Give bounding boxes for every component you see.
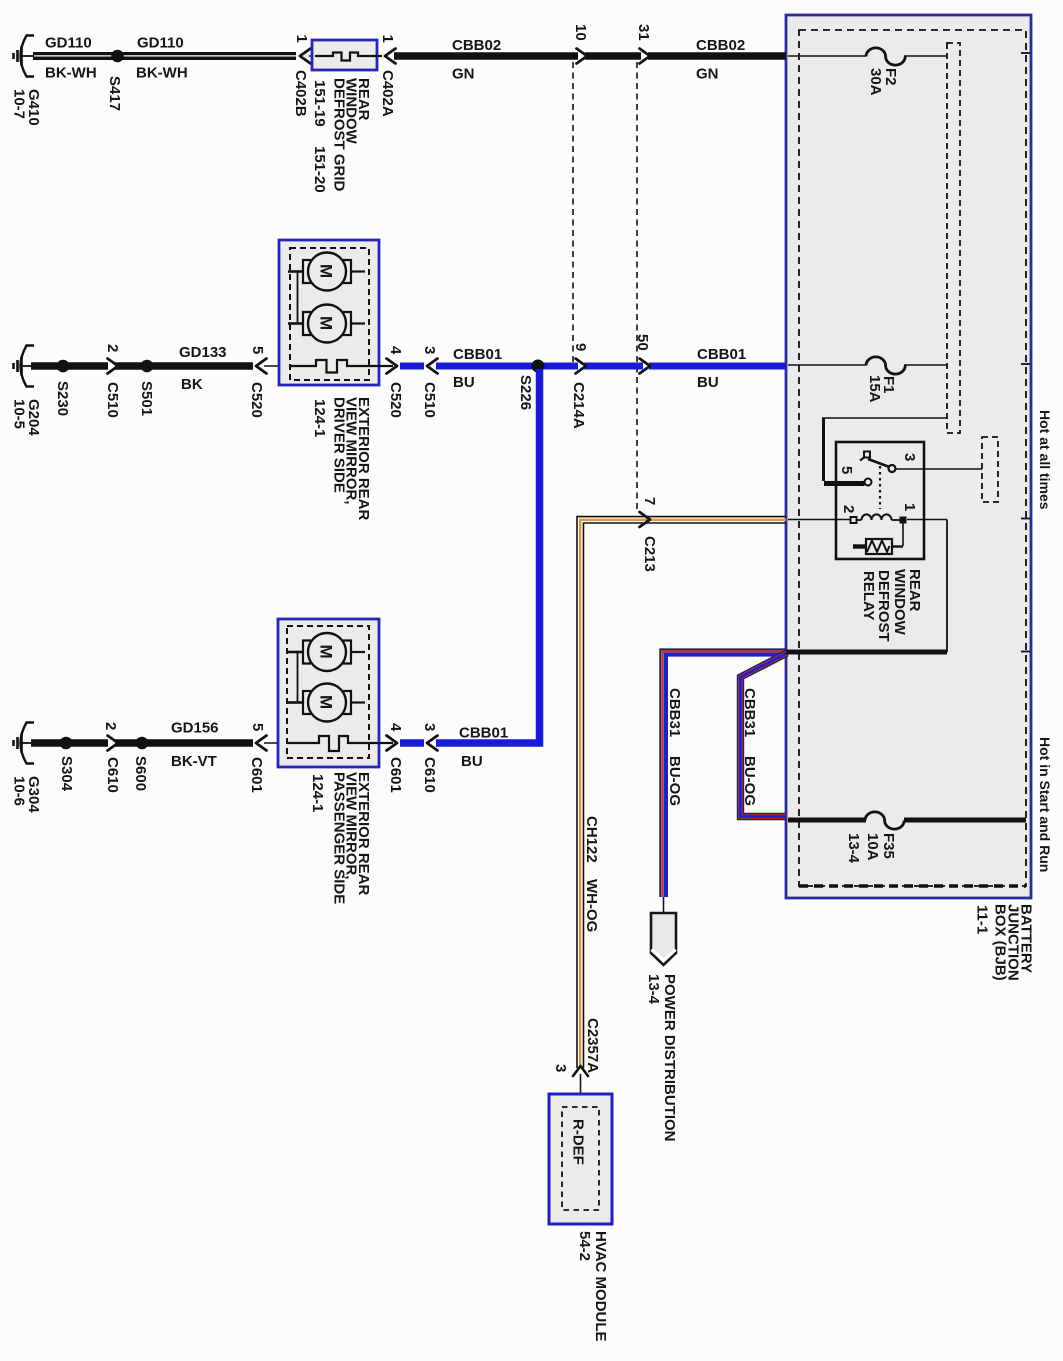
svg-text:13-4: 13-4 bbox=[845, 833, 862, 864]
svg-text:10A: 10A bbox=[864, 833, 881, 861]
svg-text:151-19: 151-19 bbox=[311, 80, 328, 127]
svg-text:WH-OG: WH-OG bbox=[583, 879, 600, 932]
svg-text:10: 10 bbox=[572, 24, 589, 41]
svg-text:BU-OG: BU-OG bbox=[741, 756, 758, 806]
svg-text:124-1: 124-1 bbox=[309, 774, 326, 812]
svg-text:31: 31 bbox=[635, 24, 652, 41]
svg-text:S600: S600 bbox=[132, 756, 149, 791]
svg-text:S417: S417 bbox=[106, 76, 123, 111]
svg-text:C213: C213 bbox=[641, 536, 658, 572]
svg-text:CBB01: CBB01 bbox=[697, 346, 746, 363]
svg-text:Hot at all times: Hot at all times bbox=[1037, 410, 1053, 510]
svg-text:1: 1 bbox=[901, 503, 918, 511]
svg-text:F35: F35 bbox=[880, 833, 897, 859]
svg-text:9: 9 bbox=[572, 343, 589, 351]
svg-text:7: 7 bbox=[641, 497, 658, 505]
svg-text:4: 4 bbox=[387, 723, 404, 732]
svg-text:GN: GN bbox=[696, 66, 719, 83]
svg-text:POWER DISTRIBUTION: POWER DISTRIBUTION bbox=[661, 974, 678, 1142]
svg-text:151-20: 151-20 bbox=[311, 146, 328, 193]
svg-text:HVAC MODULE: HVAC MODULE bbox=[592, 1231, 609, 1342]
svg-text:5: 5 bbox=[249, 346, 266, 354]
svg-text:CBB31: CBB31 bbox=[666, 688, 683, 737]
svg-text:3: 3 bbox=[901, 453, 918, 461]
svg-text:PASSENGER SIDE: PASSENGER SIDE bbox=[331, 772, 348, 904]
svg-text:C2357A: C2357A bbox=[584, 1018, 601, 1073]
svg-text:CH122: CH122 bbox=[583, 816, 600, 863]
svg-text:15A: 15A bbox=[866, 375, 883, 403]
svg-text:10-6: 10-6 bbox=[11, 776, 28, 806]
svg-text:GD133: GD133 bbox=[179, 344, 227, 361]
svg-text:C402B: C402B bbox=[292, 70, 309, 117]
svg-text:3: 3 bbox=[552, 1064, 569, 1072]
svg-text:C402A: C402A bbox=[379, 70, 396, 117]
svg-text:50: 50 bbox=[634, 334, 651, 351]
svg-text:BU: BU bbox=[697, 374, 719, 391]
svg-text:5: 5 bbox=[838, 466, 855, 474]
svg-text:2: 2 bbox=[104, 344, 121, 352]
svg-text:BK-WH: BK-WH bbox=[45, 65, 97, 82]
svg-text:2: 2 bbox=[102, 722, 119, 730]
svg-text:4: 4 bbox=[387, 346, 404, 355]
svg-text:C610: C610 bbox=[421, 757, 438, 793]
svg-text:CBB01: CBB01 bbox=[453, 346, 502, 363]
svg-text:124-1: 124-1 bbox=[311, 399, 328, 437]
svg-text:S230: S230 bbox=[54, 381, 71, 416]
svg-text:CBB02: CBB02 bbox=[696, 37, 745, 54]
svg-text:S226: S226 bbox=[517, 375, 534, 410]
svg-text:BK: BK bbox=[181, 376, 203, 393]
svg-text:GD110: GD110 bbox=[45, 35, 92, 52]
svg-text:1: 1 bbox=[293, 35, 310, 43]
svg-text:RELAY: RELAY bbox=[860, 571, 877, 620]
svg-text:54-2: 54-2 bbox=[576, 1231, 593, 1261]
svg-text:C520: C520 bbox=[248, 382, 265, 418]
svg-text:CBB02: CBB02 bbox=[452, 37, 501, 54]
svg-text:GD156: GD156 bbox=[171, 720, 219, 737]
svg-text:11-1: 11-1 bbox=[974, 905, 991, 934]
svg-text:BOX (BJB): BOX (BJB) bbox=[992, 904, 1009, 981]
svg-text:S501: S501 bbox=[138, 381, 155, 416]
svg-text:30A: 30A bbox=[867, 68, 884, 96]
svg-text:10-7: 10-7 bbox=[11, 89, 28, 119]
svg-text:C214A: C214A bbox=[570, 382, 587, 429]
svg-text:13-4: 13-4 bbox=[645, 974, 662, 1005]
svg-text:C610: C610 bbox=[104, 757, 121, 793]
svg-text:GD110: GD110 bbox=[137, 35, 184, 52]
svg-text:C510: C510 bbox=[421, 382, 438, 418]
svg-text:C601: C601 bbox=[387, 757, 404, 793]
svg-text:C510: C510 bbox=[104, 382, 121, 418]
svg-text:C520: C520 bbox=[387, 382, 404, 418]
svg-text:10-5: 10-5 bbox=[11, 399, 28, 429]
svg-text:5: 5 bbox=[249, 723, 266, 731]
svg-text:S304: S304 bbox=[58, 756, 75, 792]
svg-text:1: 1 bbox=[379, 35, 396, 43]
svg-text:R-DEF: R-DEF bbox=[570, 1119, 587, 1165]
svg-text:C601: C601 bbox=[248, 757, 265, 793]
svg-text:BK-VT: BK-VT bbox=[171, 753, 217, 770]
svg-text:WINDOW: WINDOW bbox=[891, 569, 908, 636]
svg-text:BU: BU bbox=[453, 374, 475, 391]
svg-text:CBB31: CBB31 bbox=[741, 688, 758, 737]
svg-text:DRIVER SIDE: DRIVER SIDE bbox=[331, 397, 348, 493]
svg-text:Hot in Start and Run: Hot in Start and Run bbox=[1037, 737, 1053, 872]
svg-text:DEFROST GRID: DEFROST GRID bbox=[331, 78, 348, 192]
svg-text:3: 3 bbox=[421, 723, 438, 731]
svg-text:BU: BU bbox=[461, 753, 483, 770]
svg-text:BU-OG: BU-OG bbox=[666, 756, 683, 806]
svg-text:GN: GN bbox=[452, 66, 475, 83]
svg-text:3: 3 bbox=[421, 346, 438, 354]
svg-text:BK-WH: BK-WH bbox=[136, 65, 188, 82]
svg-text:2: 2 bbox=[840, 505, 857, 513]
svg-text:CBB01: CBB01 bbox=[459, 725, 508, 742]
